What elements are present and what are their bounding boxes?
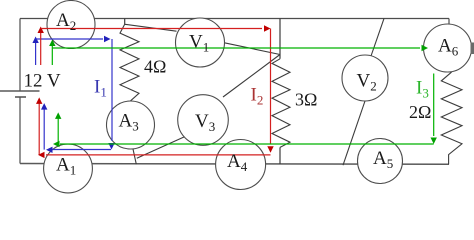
blue loop I1: left riser lower [43,108,45,150]
wire 3ohm branch bottom [279,147,281,164]
blue loop I1: top run [36,38,103,40]
svg-text:12 V: 12 V [24,71,61,92]
edge blob right [471,43,474,55]
ammeter A1 [44,144,93,193]
wire lead V1 right [222,42,280,54]
red loop I2: left riser lower [38,103,40,155]
green loop I3: top run [52,47,420,49]
blue loop I1: left riser upper [35,42,37,66]
svg-text:I2: I2 [251,85,264,108]
voltmeter V2 [342,55,388,101]
red loop I2: left riser upper [40,33,42,65]
wire stub top of 4ohm branch [124,19,126,25]
green loop I3: bottom run [60,143,434,145]
battery B1 12 V [0,91,40,97]
wire left [19,19,21,92]
wire left lower [19,97,21,164]
voltmeter V3 [178,95,229,146]
red loop I2: top run [41,28,262,30]
blue loop I1: right drop [111,39,113,141]
ammeter A3 [107,101,155,149]
wire lead V1 left [125,24,177,31]
wire lead V2 top [371,19,384,57]
resistor R2 3ohm zigzag [272,59,290,148]
green loop I3: left riser upper [51,44,53,65]
wire top [20,18,449,20]
ammeter A2 [47,1,95,49]
svg-text:I1: I1 [94,77,107,100]
red loop I2: right drop [270,29,272,145]
blue loop I1: bottom run [52,149,111,151]
wire stub A6 top [448,19,450,26]
red loop I2: bottom run [46,154,271,156]
wire bottom [20,163,449,166]
resistor R1 4ohm zigzag [120,24,139,101]
wire lead V2 bottom [343,101,365,165]
wire stem below A3 [133,149,136,164]
svg-text:3Ω: 3Ω [295,90,317,110]
svg-text:4Ω: 4Ω [144,57,166,77]
wire lead V3 bottom [137,137,185,159]
ammeter A6 [424,24,472,72]
wire lead V3 top [223,55,280,98]
svg-text:I3: I3 [416,78,429,101]
voltmeter V1 [176,18,225,67]
ammeter A5 [358,139,403,184]
wire 3ohm branch top [279,19,281,59]
svg-text:2Ω: 2Ω [409,102,431,122]
green loop I3: left riser lower [57,117,59,144]
resistor R3 2ohm zigzag [441,72,462,164]
ammeter A4 [216,140,266,190]
green loop I3: right drop [433,74,435,137]
